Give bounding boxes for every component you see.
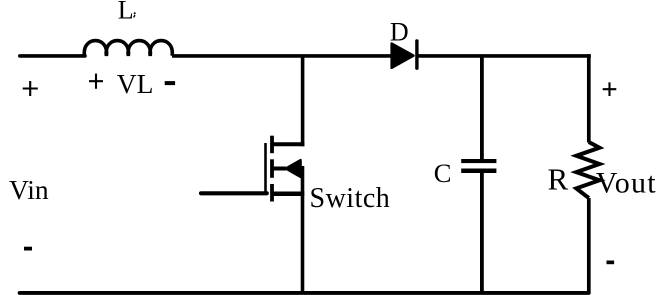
wire output right vertical (top corner to resistor) [587,54,591,142]
svg-text:R: R [548,162,569,197]
label plus input [23,81,38,96]
label Vout [596,167,657,200]
label plus VL [89,74,103,89]
svg-text:VL: VL [117,68,154,99]
wire bottom rail [20,291,589,295]
resistor R [576,142,599,198]
label L [118,0,134,25]
wire drain drop (top wire down to MOSFET drain) [301,55,305,147]
stray apostrophe mark after L [134,12,136,17]
wire capacitor top branch [480,55,484,160]
svg-text:D: D [390,18,409,47]
wire gate lead [201,191,267,195]
wire top-middle (inductor to diode anode) [172,54,391,58]
capacitor C [461,159,496,173]
label C [434,158,452,188]
MOSFET switch Q1 [266,136,305,202]
diode D [392,39,419,70]
label VL [117,68,154,99]
label R [548,162,569,197]
label D [390,18,409,47]
wire top-left input segment [20,54,85,58]
wire capacitor bottom branch [480,173,484,294]
label minus output [607,261,615,265]
svg-text:Vin: Vin [9,174,49,205]
svg-text:L: L [118,0,134,25]
label minus input [24,247,32,251]
svg-text:Switch: Switch [310,183,391,214]
label Vin [9,174,49,205]
label minus VL [165,81,175,85]
label plus output [603,82,617,96]
wire top-right (diode cathode to output corner) [417,54,591,58]
wire source drop (MOSFET source down to bottom rail) [301,166,305,294]
inductor L [84,41,172,56]
svg-text:Vout: Vout [596,167,657,200]
svg-text:C: C [434,158,452,188]
label Switch [310,183,391,214]
wire output right vertical (resistor to bottom rail) [587,198,591,294]
